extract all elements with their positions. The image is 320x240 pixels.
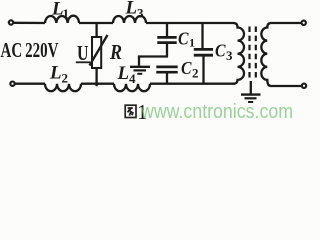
wire C3 branch bottom bbox=[202, 56, 204, 84]
ground (transformer core) bbox=[241, 95, 261, 102]
junction varistor/bottom rail bbox=[95, 82, 99, 86]
capacitor C2 bbox=[156, 67, 177, 72]
wire core ground stub bbox=[250, 81, 252, 94]
caption 1 bbox=[137, 100, 148, 124]
wire C3 branch top bbox=[201, 23, 203, 48]
terminal bottom-left bbox=[10, 82, 14, 86]
svg-text:L: L bbox=[117, 63, 130, 84]
svg-text:C: C bbox=[181, 58, 192, 78]
wire to ground tap bbox=[139, 57, 168, 66]
varistor R (box) bbox=[92, 37, 101, 68]
capacitor C3 bbox=[194, 49, 213, 55]
terminal top-left bbox=[9, 20, 13, 24]
svg-text:2: 2 bbox=[192, 65, 199, 80]
underline of U bbox=[76, 61, 90, 63]
label L1 bbox=[51, 0, 69, 21]
label U bbox=[77, 41, 89, 65]
label C2 bbox=[181, 58, 199, 80]
terminal top-right bbox=[302, 21, 306, 25]
varistor slash bbox=[90, 35, 108, 66]
inductor L1 bbox=[45, 16, 79, 23]
svg-text:R: R bbox=[109, 40, 122, 64]
wire top rail right bbox=[146, 22, 235, 24]
svg-text:L: L bbox=[49, 63, 62, 84]
wire bottom rail between L2 and L4 bbox=[81, 83, 114, 85]
ground (between C1 and C2) bbox=[130, 67, 150, 74]
svg-text:1: 1 bbox=[189, 36, 195, 50]
wire bottom rail left bbox=[15, 83, 45, 85]
inductor L4 bbox=[114, 84, 150, 92]
terminal bottom-right bbox=[302, 84, 306, 88]
capacitor C1 bbox=[157, 37, 176, 42]
inductor L3 bbox=[113, 16, 146, 23]
caption 图 (figure glyph) bbox=[125, 105, 136, 117]
label C1 bbox=[178, 28, 195, 49]
svg-text:3: 3 bbox=[226, 48, 233, 63]
label L3 bbox=[125, 0, 145, 20]
svg-text:AC 220V: AC 220V bbox=[1, 38, 59, 62]
wire C1 to C2 bbox=[166, 44, 168, 57]
transformer T1 primary winding bbox=[234, 23, 245, 84]
label C3 bbox=[215, 41, 233, 63]
wire C2 branch bottom bbox=[166, 73, 168, 84]
wire varistor branch top bbox=[95, 23, 97, 37]
label L2 bbox=[49, 63, 68, 86]
svg-text:C: C bbox=[215, 41, 226, 61]
svg-text:C: C bbox=[178, 28, 189, 48]
svg-text:4: 4 bbox=[129, 71, 136, 86]
inductor L2 bbox=[45, 84, 81, 92]
transformer core (dashed) bbox=[250, 27, 256, 80]
svg-text:3: 3 bbox=[137, 5, 144, 20]
svg-text:L: L bbox=[125, 0, 138, 19]
wire bottom rail right bbox=[150, 83, 235, 85]
svg-text:1: 1 bbox=[63, 6, 70, 21]
label L4 bbox=[117, 63, 137, 86]
watermark www.cntronics.com bbox=[140, 101, 293, 123]
transformer T1 secondary winding bbox=[261, 23, 271, 86]
wire C1 branch top bbox=[166, 23, 168, 36]
svg-text:2: 2 bbox=[62, 70, 69, 85]
wire top rail left bbox=[14, 22, 45, 25]
label AC220V bbox=[1, 38, 59, 62]
svg-text:www.cntronics.com: www.cntronics.com bbox=[140, 101, 293, 123]
wire secondary top bbox=[271, 22, 302, 24]
wire secondary bottom bbox=[271, 85, 302, 87]
wire top rail between L1 and L3 bbox=[79, 22, 113, 24]
wire varistor branch bottom bbox=[95, 68, 97, 86]
label R bbox=[109, 40, 122, 64]
